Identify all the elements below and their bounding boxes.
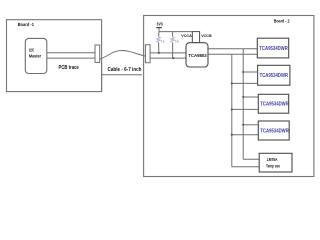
svg-text:Board - 2: Board - 2 — [274, 18, 290, 23]
svg-text:3V3: 3V3 — [157, 22, 164, 27]
svg-text:Cable - 6-7 inch: Cable - 6-7 inch — [108, 67, 142, 73]
svg-text:VCCA: VCCA — [181, 34, 192, 38]
svg-text:TCA9534DWR: TCA9534DWR — [260, 102, 289, 108]
svg-text:I2C: I2C — [29, 47, 35, 52]
svg-text:1k: 1k — [175, 39, 179, 43]
svg-text:Master: Master — [29, 54, 41, 59]
svg-text:PCB trace: PCB trace — [59, 65, 79, 71]
svg-text:Board -1: Board -1 — [18, 22, 35, 27]
svg-text:TCA9534DWR: TCA9534DWR — [260, 73, 289, 79]
svg-text:1k: 1k — [161, 39, 165, 43]
svg-text:TCA9534DWR: TCA9534DWR — [260, 128, 289, 134]
svg-text:LM75A: LM75A — [267, 157, 278, 162]
svg-text:Temp sen: Temp sen — [266, 164, 280, 169]
svg-text:VCCB: VCCB — [201, 34, 212, 38]
svg-text:TCA9534DWR: TCA9534DWR — [259, 46, 288, 52]
svg-text:TCA9803: TCA9803 — [188, 53, 207, 59]
